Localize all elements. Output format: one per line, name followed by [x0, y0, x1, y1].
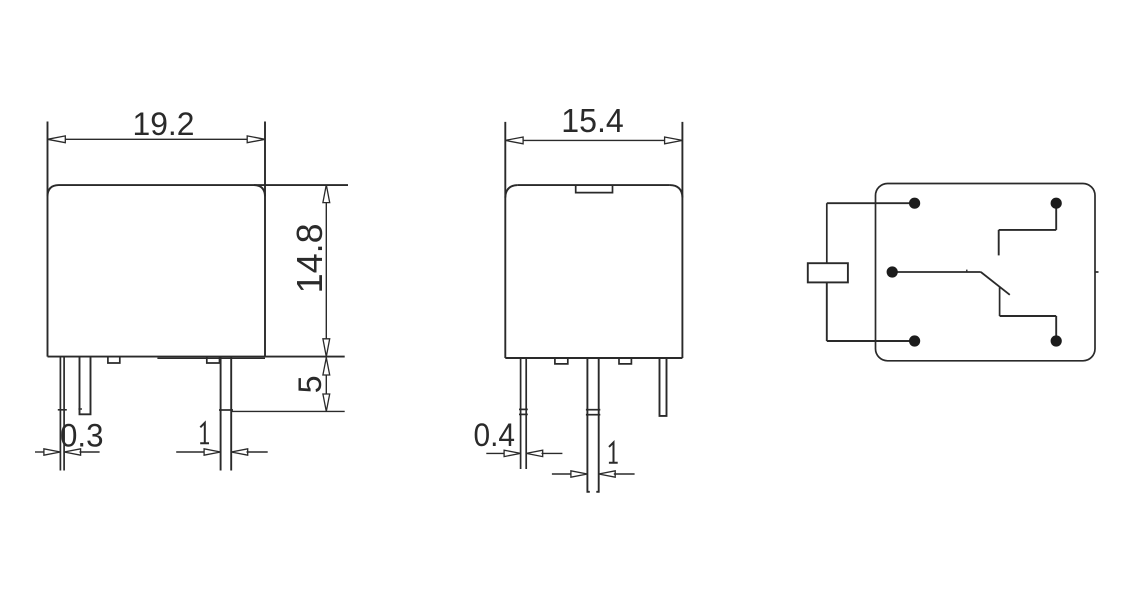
node pin top-right — [1051, 198, 1062, 209]
side view bottom edge — [505, 357, 682, 359]
dim 19.2 dimension line — [48, 138, 266, 140]
wire coil left down to coil — [826, 203, 828, 263]
dim 1 side left arrow line — [552, 473, 572, 475]
side view pin 1 tick upper — [519, 408, 528, 410]
dim 15.4 right arrowhead — [665, 137, 683, 144]
dim 19.2 left arrowhead — [48, 136, 66, 143]
dim 1 front right arrow line — [247, 451, 268, 453]
dim 1 side left arrowhead — [571, 471, 588, 477]
front view top-left corner fillet — [48, 185, 59, 196]
dim 14.8 top arrowhead — [323, 185, 330, 203]
side view pin 1 left line — [520, 358, 522, 469]
side view pin 2 tick upper — [586, 409, 600, 411]
front view pin 2 tick — [78, 408, 82, 410]
side view pin 1 right line — [525, 358, 527, 469]
front view tab 2 — [207, 357, 220, 363]
node pin top-left — [909, 198, 920, 209]
wire NC horizontal — [999, 229, 1056, 231]
wire NO from bottom-right dot up — [1055, 316, 1057, 341]
dim 1 side right arrow line — [614, 473, 635, 475]
wire NO horizontal — [1000, 315, 1057, 317]
relay body front view right edge with extension line — [264, 122, 266, 357]
front view pin 3 left line — [220, 357, 222, 471]
dim 0.3 right arrowhead — [64, 449, 81, 455]
dim 14.8 dimension line — [325, 185, 327, 357]
side view top edge — [518, 184, 670, 186]
dim 0.4 right arrow line — [542, 452, 563, 454]
dim label 1 front — [200, 423, 209, 443]
wire coil to bottom — [826, 282, 828, 341]
front view pin 1 thin left line — [59, 357, 61, 471]
side view top-right corner fillet — [670, 185, 683, 197]
schematic right edge tick — [1095, 271, 1099, 273]
relay body side view left edge with extension line — [504, 122, 506, 358]
dim 19.2 right arrowhead — [247, 136, 265, 143]
svg-text:14.8: 14.8 — [289, 223, 330, 293]
front view pin 1 thin right line — [63, 357, 65, 471]
dim label 1 side — [609, 442, 618, 462]
relay body side view right edge with extension line — [681, 122, 683, 358]
svg-text:15.4: 15.4 — [561, 102, 624, 139]
side view top-left corner fillet — [505, 185, 518, 197]
side view pin 2 left line — [587, 358, 589, 492]
front view pin 3 right line — [230, 357, 232, 471]
svg-text:5: 5 — [292, 375, 328, 393]
dim 5 dimension line — [325, 357, 327, 412]
side view tab 2 — [619, 358, 631, 364]
dim 0.3 left arrow line — [35, 451, 45, 453]
node pin middle-left — [887, 266, 898, 277]
svg-text:0.4: 0.4 — [474, 417, 516, 453]
node pin bottom-left — [909, 335, 920, 346]
wire NC from top-right dot down — [1055, 203, 1057, 230]
side view top notch — [576, 185, 613, 193]
wire NC stub down — [998, 230, 1000, 256]
dim 0.3 left arrowhead — [44, 449, 61, 455]
coil K1 — [808, 263, 848, 282]
front view pin 2 coil pin outline — [80, 357, 91, 415]
front view tab 1 — [108, 357, 120, 363]
side view pin 2 tick lower — [586, 414, 600, 416]
dim 0.4 right arrowhead — [526, 450, 543, 456]
schematic enclosure box — [876, 184, 1096, 361]
side view tab 1 — [555, 358, 568, 364]
side view pin 1 tick lower — [519, 413, 528, 415]
side view pin 2 right line — [596, 358, 598, 492]
dim 0.4 left arrow line — [486, 452, 505, 454]
wire NO stub up — [999, 288, 1001, 317]
dim 0.4 left arrowhead — [504, 450, 520, 456]
wire coil pin B bottom — [827, 340, 915, 342]
dim 1 side right arrowhead — [599, 471, 616, 477]
switch blade — [981, 272, 1010, 295]
dim 1 front left arrowhead — [204, 449, 221, 455]
front view top-right corner fillet — [254, 185, 265, 196]
front view bottom edge — [48, 356, 345, 358]
dim 0.3 right arrow line — [80, 451, 100, 453]
side view pin 3 outline — [660, 358, 667, 416]
common wire pivot tick — [966, 270, 968, 272]
dim 5 bottom extension line — [231, 410, 345, 412]
dim 15.4 dimension line — [505, 139, 682, 141]
wire common contact — [892, 271, 981, 273]
front view pin 3 tick — [219, 409, 233, 411]
relay body front view left edge with extension line — [47, 122, 49, 357]
dim 15.4 left arrowhead — [505, 137, 523, 144]
dim 5 bottom arrowhead — [323, 394, 330, 411]
dim 1 front left arrow line — [176, 451, 205, 453]
dim 1 front right arrowhead — [231, 449, 248, 455]
front view pin 1 tick — [58, 409, 67, 411]
dim 5 top arrowhead — [323, 358, 330, 375]
front view bottom edge doubled segment — [157, 357, 265, 359]
front view top edge with extension to right — [59, 184, 349, 186]
wire coil pin A top — [827, 202, 915, 204]
dim 14.8 bottom arrowhead — [323, 339, 330, 357]
svg-text:19.2: 19.2 — [133, 106, 195, 142]
node pin bottom-right — [1051, 335, 1062, 346]
svg-text:0.3: 0.3 — [60, 418, 104, 454]
